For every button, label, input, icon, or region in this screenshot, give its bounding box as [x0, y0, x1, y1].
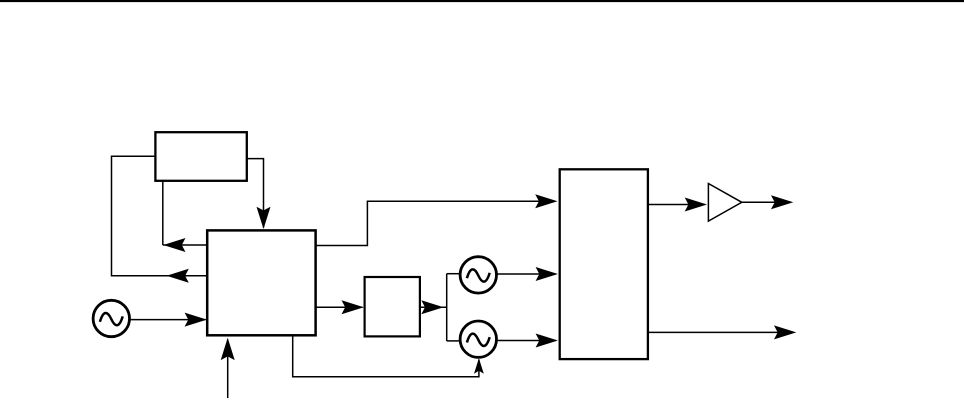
block U1 (main synthesizer box, center left) — [207, 230, 315, 335]
oscillator OSC3 (lower middle AC source) — [460, 321, 496, 357]
arrowhead into U1 top (points down) — [257, 207, 271, 229]
branch vertical wire to OSC2/OSC3 — [446, 274, 448, 341]
arrowhead into OSC3 bottom (points up) — [474, 358, 484, 374]
branch wire to OSC2 — [447, 273, 461, 275]
buffer amplifier A1 (triangle) — [708, 184, 741, 222]
arrowhead into U4 middle-left (points right) — [536, 267, 558, 281]
arrowhead on lower feedback wire (points left) — [167, 269, 189, 283]
arrowhead into U3 left (points right) — [342, 300, 364, 314]
wire U1 right lower output to U3 input — [317, 306, 363, 308]
arrowhead into U1 bottom (points up) — [221, 338, 235, 360]
wire U1 bottom output to OSC3 bottom — [293, 336, 479, 377]
arrowhead RF OUT (points right) — [771, 195, 793, 209]
arrowhead into U1 left (points right) — [185, 313, 207, 327]
wire U2 right down into U1 top — [247, 159, 264, 228]
arrowhead into U4 bottom-left (points right) — [536, 334, 558, 348]
arrowhead on upper feedback wire (points left) — [163, 238, 185, 252]
oscillator OSC2 (upper middle AC source) — [460, 257, 496, 293]
block U3 (divider box, small center) — [365, 277, 420, 336]
block U4 (output mixer box, tall right) — [560, 169, 648, 359]
branch wire to OSC3 — [447, 340, 461, 342]
wire U1 left to U2 left-side feedback (lower) — [112, 156, 208, 276]
wire U4 bottom-right output (IF OUT, bottom right) — [648, 331, 792, 333]
wire U1 left to U2 bottom feedback (upper) — [163, 180, 208, 245]
wire OSC3 to U4 bottom-left input — [497, 340, 556, 342]
block U2 (feedback/loop-filter box, top left) — [155, 132, 246, 181]
arrowhead into buffer A1 (points right) — [685, 198, 707, 212]
wire OSC2 to U4 middle-left input — [497, 273, 556, 275]
page header rule — [0, 0, 964, 2]
arrowhead into U4 top-left (points right) — [535, 194, 557, 208]
arrowhead IF OUT (points right) — [774, 325, 796, 339]
wire from bottom edge up into U1 bottom — [227, 340, 229, 399]
wire OSC1 to U1 left input — [131, 319, 206, 321]
wire U1 right upper output to U4 top-left input — [317, 201, 556, 245]
wire buffer A1 output (RF OUT, top right) — [742, 201, 790, 203]
arrowhead on U3 output (points right) — [421, 300, 443, 314]
wire U3 output to branch node — [420, 306, 447, 308]
wire U4 top-right output to buffer A1 — [648, 204, 702, 206]
oscillator OSC1 (left AC source) — [93, 300, 129, 336]
